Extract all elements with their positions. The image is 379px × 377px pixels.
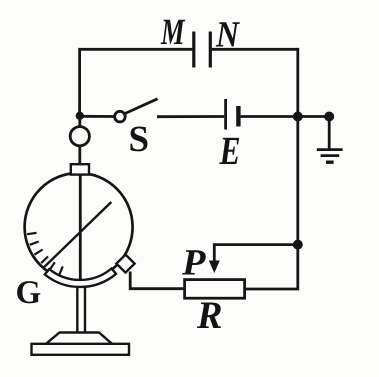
wire node B to ground node (298, 115, 329, 118)
galvanometer cradle band (45, 269, 116, 287)
svg-text:G: G (15, 275, 41, 311)
galvanometer stem: node A to terminal ball (78, 116, 81, 128)
galvanometer binding block (71, 164, 89, 174)
switch S pivot circle (115, 111, 126, 122)
ground symbol bar 1 (317, 148, 343, 151)
svg-text:P: P (181, 242, 206, 283)
battery E long plate (positive) (224, 99, 227, 130)
stand base plate (32, 344, 130, 355)
capacitor plate N (right) (209, 32, 212, 68)
stand pillar left edge (76, 288, 78, 333)
wire from node A to switch pivot (82, 115, 115, 118)
slider P arrowhead (209, 261, 220, 274)
scale tick 3 (35, 250, 43, 255)
galvanometer diamond terminal (116, 255, 134, 273)
scale tick 1 (27, 233, 36, 234)
scale tick 2 (30, 242, 39, 245)
battery E short plate (negative) (236, 106, 240, 127)
wire top-left: left vertical + top horizontal to capacitor plate M (80, 49, 193, 116)
switch S lever arm (125, 99, 158, 114)
scale tick 6 (59, 266, 63, 275)
galvanometer stem: ball to binding block (78, 146, 81, 165)
node C junction dot (right vertical, slider tap) (293, 240, 303, 250)
galvanometer needle (44, 202, 111, 267)
node B junction dot (right of battery) (293, 112, 303, 122)
svg-text:M: M (160, 12, 185, 53)
wire rheostat left terminal to galvanometer diamond terminal (130, 272, 184, 289)
scale tick 5 (50, 262, 55, 270)
galvanometer center vertical line (79, 175, 82, 287)
svg-text:E: E (219, 128, 241, 173)
svg-text:N: N (215, 14, 240, 55)
wire top-right: from capacitor plate N to right vertical down to rheostat right terminal (212, 49, 298, 289)
stand pillar right edge (84, 288, 86, 333)
galvanometer terminal ball (70, 127, 89, 146)
scale tick 4 (41, 257, 48, 264)
ground node junction dot (324, 112, 334, 122)
ground symbol vertical lead (328, 117, 331, 149)
svg-text:R: R (196, 294, 222, 337)
rheostat R box (185, 280, 245, 299)
galvanometer body circle (25, 173, 133, 281)
wire battery to node B (241, 115, 298, 118)
stand trapezoid foot (46, 333, 112, 344)
ground symbol bar 2 (321, 154, 340, 157)
ground symbol bar 3 (326, 160, 334, 163)
wire from switch fixed contact to battery (157, 115, 224, 118)
capacitor plate M (left) (192, 32, 195, 68)
svg-text:S: S (128, 119, 149, 160)
wire slider P to node C (214, 245, 297, 262)
node A junction dot (left, top of galvanometer) (76, 112, 84, 120)
